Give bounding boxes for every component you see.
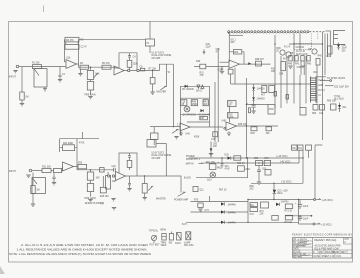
svg-text:R C R: R C R <box>284 47 291 49</box>
svg-text:VIEW: VIEW <box>160 230 167 232</box>
svg-text:10K: 10K <box>271 71 276 73</box>
ground <box>20 104 24 106</box>
resistor R54 <box>319 105 325 116</box>
svg-text:10uF: 10uF <box>303 206 309 208</box>
svg-text:SCALE: SCALE <box>293 250 301 253</box>
note text U2 <box>152 153 172 160</box>
wire stub R17 <box>167 64 171 87</box>
op-amp U3B <box>222 120 248 130</box>
wire <box>220 61 230 63</box>
wire pin fringe <box>230 32 308 34</box>
svg-text:22uF: 22uF <box>206 47 212 49</box>
resistor R33 <box>229 50 244 64</box>
label SG <box>231 40 237 45</box>
resistor R26 <box>100 168 105 172</box>
wire rail +15 out <box>248 198 333 201</box>
text <box>200 69 223 77</box>
svg-text:TYPICAL: TYPICAL <box>149 230 159 233</box>
svg-text:1.ALL RESISTANCE VALUES ARE IN: 1.ALL RESISTANCE VALUES ARE IN OHMS K=10… <box>17 248 147 251</box>
wire <box>229 34 243 36</box>
op-amp U1B <box>114 66 124 75</box>
resistor R52 <box>300 108 306 116</box>
diode D9 <box>252 84 265 97</box>
wire +15 feed <box>209 142 218 158</box>
svg-text:R36: R36 <box>277 48 282 50</box>
resistor R51 <box>269 86 275 93</box>
wire rail -15 <box>251 182 303 184</box>
svg-text:RG: RG <box>298 148 302 150</box>
svg-text:220K: 220K <box>133 64 139 66</box>
wire <box>246 104 268 106</box>
ground <box>112 208 116 210</box>
svg-text:AMP IN: AMP IN <box>186 162 194 165</box>
wire <box>77 64 116 67</box>
svg-text:10 10 10: 10 10 10 <box>296 51 306 53</box>
transistor Q3 <box>286 52 291 57</box>
op-amp U1A <box>66 57 77 69</box>
svg-text:(-15 VDC): (-15 VDC) <box>321 224 332 226</box>
ground <box>26 175 30 177</box>
resistor R10 <box>191 100 197 106</box>
svg-text:DR. A.SMITH: DR. A.SMITH <box>293 238 307 241</box>
svg-text:R64: R64 <box>265 158 270 160</box>
svg-text:U1A: U1A <box>66 57 71 60</box>
diode D22 <box>221 202 236 206</box>
svg-text:PRE GAIN: PRE GAIN <box>85 94 96 97</box>
ground <box>150 92 154 94</box>
jack J1 <box>16 65 21 68</box>
svg-text:R45: R45 <box>314 72 319 74</box>
svg-text:40P: 40P <box>231 42 236 44</box>
svg-text:TO SPKR JACKS: TO SPKR JACKS <box>327 77 346 80</box>
svg-text:10uF: 10uF <box>303 219 309 221</box>
wire <box>301 60 304 75</box>
resistor R74 <box>285 215 293 224</box>
resistor R21 <box>42 166 51 172</box>
svg-text:POWER AMP: POWER AMP <box>174 199 189 202</box>
title text <box>315 244 341 250</box>
diode D10 <box>337 43 340 51</box>
wire bus vertical A <box>179 86 181 135</box>
wire top bus ch2 <box>60 138 100 140</box>
wire out <box>166 176 181 193</box>
wire <box>234 68 236 85</box>
capacitor C1 <box>58 67 65 80</box>
wire bus v2 <box>280 56 282 108</box>
svg-text:Q11: Q11 <box>200 190 205 192</box>
svg-text:R53: R53 <box>312 113 317 115</box>
wire to EQ <box>160 64 174 70</box>
wire bus vertical C <box>214 82 216 142</box>
diode D24 <box>221 221 236 225</box>
wire fb bus <box>79 38 146 40</box>
diode D23 <box>221 210 236 214</box>
wire eq low <box>180 113 209 115</box>
capacitor C22 <box>111 166 116 172</box>
svg-text:R38 4K7: R38 4K7 <box>255 59 265 61</box>
svg-text:4558: 4558 <box>194 137 200 139</box>
svg-text:C50: C50 <box>342 45 347 47</box>
capacitor C62 <box>257 166 261 185</box>
svg-text:JACK: JACK <box>175 242 181 245</box>
svg-text:U4B: U4B <box>222 120 227 122</box>
wire <box>74 167 114 170</box>
svg-text:R45: R45 <box>318 56 323 58</box>
svg-text:FROM SHT 1: FROM SHT 1 <box>186 159 201 161</box>
wire U2B feedback <box>119 153 137 176</box>
svg-text:10K: 10K <box>112 181 117 183</box>
wire rail C <box>186 221 299 223</box>
diode D8 <box>199 109 211 116</box>
label cluster <box>276 51 308 56</box>
node junction <box>248 62 251 65</box>
wire eq top <box>180 85 209 87</box>
svg-text:Q5 SPS8525: Q5 SPS8525 <box>183 115 197 117</box>
label row <box>288 64 312 68</box>
svg-text:(+15 VDC): (+15 VDC) <box>322 200 333 202</box>
legend heading <box>149 230 167 233</box>
svg-text:2K4: 2K4 <box>234 52 239 54</box>
ground <box>143 198 147 200</box>
label <box>327 101 347 110</box>
svg-text:C73: C73 <box>205 210 210 212</box>
wire <box>247 200 249 223</box>
resistor R55 <box>331 104 337 110</box>
svg-text:(-40 VDC): (-40 VDC) <box>280 161 291 163</box>
svg-text:POT BOT: POT BOT <box>150 245 161 247</box>
resistor R30 <box>194 61 229 69</box>
ground <box>88 200 92 202</box>
cells row <box>313 250 353 254</box>
svg-text:2. ALL R.C.S 1/2,A,5 ARE 1/4W: 2. ALL R.C.S 1/2,A,5 ARE 1/4W OR NOTED. … <box>21 244 149 247</box>
svg-text:R24 220K: R24 220K <box>63 143 74 145</box>
svg-text:R40: R40 <box>288 64 293 66</box>
svg-text:64.5: 64.5 <box>182 224 187 226</box>
svg-text:R61 150: R61 150 <box>206 162 215 164</box>
legend trim symbol <box>161 234 168 248</box>
ground <box>127 189 131 191</box>
wire bus vertical D <box>217 48 219 142</box>
svg-text:C15: C15 <box>211 139 216 141</box>
jack tip contact <box>108 175 110 177</box>
capacitor C70 <box>295 200 309 210</box>
node junction <box>90 67 91 68</box>
svg-text:80301: 80301 <box>333 252 340 254</box>
resistor R28 <box>100 176 109 198</box>
svg-text:R31: R31 <box>200 73 205 75</box>
jack J2 <box>29 169 34 172</box>
node junction <box>221 157 303 184</box>
svg-text:4K7: 4K7 <box>261 95 266 97</box>
resistor R73 <box>285 204 293 213</box>
svg-text:R73 1K: R73 1K <box>285 211 293 213</box>
node junction <box>90 169 91 170</box>
label <box>186 156 201 161</box>
resistor R4 <box>80 63 89 69</box>
resistor R53 <box>312 105 318 116</box>
bottom row <box>314 254 342 259</box>
svg-text:1N4742: 1N4742 <box>281 201 290 203</box>
wire feedback ch2 <box>60 139 78 167</box>
jack switch outline ch2 <box>32 178 46 194</box>
resistor R2 <box>20 67 29 104</box>
svg-text:OUT 2: OUT 2 <box>318 90 325 92</box>
resistor R15 <box>151 127 159 145</box>
signature strokes <box>296 240 311 257</box>
pot P2 <box>150 71 155 92</box>
capacitor C33 <box>203 50 205 55</box>
pot P23 <box>142 176 152 197</box>
text label <box>206 44 221 53</box>
ground <box>31 204 35 206</box>
svg-text:REV A.B.: REV A.B. <box>293 256 303 259</box>
svg-text:(+40 VDC): (+40 VDC) <box>277 156 288 158</box>
company row <box>315 238 353 245</box>
wire bus vertical B <box>209 86 211 127</box>
ground <box>227 132 231 136</box>
wire dashed drops <box>311 34 318 44</box>
boxes top right <box>292 145 312 150</box>
diode D25 <box>276 201 289 206</box>
wire <box>299 145 322 200</box>
svg-text:2K2: 2K2 <box>250 189 255 191</box>
arrow wiper <box>161 86 167 90</box>
label cluster 2 <box>271 47 322 76</box>
note text U1 <box>152 53 172 60</box>
svg-text:R56 10K: R56 10K <box>327 101 336 103</box>
svg-text:DATE: DATE <box>293 247 299 250</box>
svg-text:47K: 47K <box>200 75 205 77</box>
svg-text:+V: +V <box>318 95 321 97</box>
arrow out <box>178 192 186 197</box>
svg-text:D20: D20 <box>225 155 230 157</box>
label U4A <box>186 133 200 139</box>
svg-text:R20: R20 <box>251 133 256 135</box>
capacitor C42 <box>249 108 251 113</box>
resistor R29 <box>266 127 272 135</box>
svg-text:OP AMP: OP AMP <box>152 157 161 160</box>
jack switch outline <box>34 69 47 87</box>
wire rail -40 <box>204 162 300 164</box>
label <box>342 45 348 52</box>
op-amp U2B <box>116 172 126 181</box>
resistor R65 <box>265 170 271 176</box>
legend jack symbol <box>175 233 181 246</box>
resistor R43 <box>307 56 310 62</box>
ground <box>179 132 183 136</box>
pot P21 <box>87 170 100 180</box>
svg-text:D21 +15V: D21 +15V <box>278 191 289 193</box>
svg-text:C60: C60 <box>213 144 218 146</box>
svg-text:R5 47K: R5 47K <box>102 63 110 65</box>
svg-text:R70: R70 <box>194 200 199 202</box>
legend lamp symbol <box>184 232 194 247</box>
svg-text:C72: C72 <box>250 214 255 216</box>
connector block B2 <box>147 140 156 148</box>
svg-text:C2 47: C2 47 <box>81 47 88 49</box>
wire <box>285 215 312 217</box>
svg-text:FLIP FLOP: FLIP FLOP <box>296 54 308 56</box>
resistor R46 <box>281 62 286 71</box>
title divider v <box>312 238 314 259</box>
node junction <box>246 104 247 127</box>
wire signal down <box>173 64 175 127</box>
svg-text:4K7: 4K7 <box>283 59 288 61</box>
wire <box>150 126 180 128</box>
svg-text:R1 22K: R1 22K <box>32 63 40 65</box>
svg-text:D5 1N4448: D5 1N4448 <box>182 89 194 91</box>
ground <box>13 71 17 73</box>
svg-text:R74 1K: R74 1K <box>285 222 293 224</box>
title outer <box>293 238 353 259</box>
resistor R25 <box>78 143 87 169</box>
svg-text:GND: GND <box>318 85 323 87</box>
wire rail A <box>191 201 249 203</box>
svg-text:R62: R62 <box>246 169 251 171</box>
svg-text:C32: C32 <box>218 69 223 71</box>
svg-text:R3 47K: R3 47K <box>66 40 74 42</box>
wire out top <box>316 77 346 80</box>
ground <box>52 183 56 185</box>
resistor R44 <box>200 116 208 120</box>
wire -15 out <box>299 200 332 227</box>
wire bus v1 <box>274 35 276 108</box>
svg-text:C22: C22 <box>112 166 117 168</box>
svg-text:C36: C36 <box>279 74 284 76</box>
arrow wiper <box>172 129 178 133</box>
wire feedback loop <box>65 39 79 64</box>
svg-text:INPUT: INPUT <box>9 171 16 173</box>
svg-text:PEAVEY ELECTRONICS CORP MERIDI: PEAVEY ELECTRONICS CORP MERIDIAN MS <box>292 234 352 237</box>
svg-text:R43: R43 <box>307 64 312 66</box>
svg-text:RG: RG <box>292 148 296 150</box>
wire <box>240 63 271 65</box>
ground <box>111 199 115 201</box>
resistor R45 <box>314 59 321 75</box>
jack tip contact <box>128 69 130 71</box>
svg-text:1N4003: 1N4003 <box>257 89 266 91</box>
svg-text:10uF: 10uF <box>342 48 348 50</box>
svg-text:R61: R61 <box>217 167 222 169</box>
wire <box>156 144 166 177</box>
resistor R19 <box>228 113 239 119</box>
connector CN1 striped <box>311 77 317 103</box>
svg-text:R25: R25 <box>78 163 83 165</box>
svg-text:INPUT: INPUT <box>9 77 16 79</box>
svg-text:1M: 1M <box>25 97 28 99</box>
wire rail <box>289 43 322 45</box>
svg-text:25V: 25V <box>342 50 347 52</box>
capacitor C21 <box>52 173 55 182</box>
svg-text:R28 10K: R28 10K <box>100 196 109 198</box>
ground stub <box>78 69 82 76</box>
resistor R62 <box>238 166 251 171</box>
svg-text:1M: 1M <box>36 190 39 192</box>
svg-text:150K: 150K <box>192 104 198 106</box>
svg-text:10K: 10K <box>96 178 101 180</box>
resistor R24 <box>63 143 75 151</box>
svg-text:4700: 4700 <box>269 109 275 111</box>
wire <box>325 34 328 76</box>
connector block B1 <box>146 39 155 46</box>
resistor R41 <box>295 56 298 62</box>
svg-text:MASTER: MASTER <box>156 198 166 201</box>
resistor R6 <box>127 57 138 71</box>
capacitor C71 <box>298 216 309 221</box>
resistor R70 <box>198 203 203 211</box>
capacitor C5 <box>140 66 145 71</box>
resistor R38 <box>255 59 265 66</box>
transistor Q4 <box>312 49 317 54</box>
svg-text:47uF: 47uF <box>225 169 231 171</box>
wire rail +40 <box>189 157 304 159</box>
diode D21 <box>273 183 289 199</box>
diode D20 <box>225 155 231 160</box>
svg-text:VIEW: VIEW <box>161 245 168 247</box>
wire out 2 <box>320 80 332 82</box>
wire <box>325 31 330 57</box>
svg-text:T3 5A: T3 5A <box>334 95 341 98</box>
capacitor C23 <box>128 153 131 160</box>
wire <box>302 158 304 183</box>
svg-text:U2-B TL072: U2-B TL072 <box>152 153 165 155</box>
svg-text:R60 1K: R60 1K <box>237 163 245 165</box>
pot P22 <box>106 172 117 189</box>
resistor R44 <box>327 46 333 58</box>
node junction <box>228 32 230 34</box>
resistor R1 <box>32 63 42 69</box>
svg-text:R30: R30 <box>196 61 201 63</box>
pot P21 lower <box>87 180 93 196</box>
svg-text:C52 10uF 50V: C52 10uF 50V <box>334 87 349 89</box>
wire <box>229 107 231 123</box>
wire eq mid <box>180 97 209 99</box>
svg-text:DATE: DATE <box>314 255 320 258</box>
IC U6 dashed <box>294 44 312 50</box>
node junction <box>247 157 248 158</box>
svg-text:R21 22K: R21 22K <box>42 166 51 168</box>
resistor R20 <box>251 127 258 135</box>
diode D11 <box>338 103 341 113</box>
svg-text:SHEET 1 OF: SHEET 1 OF <box>322 256 336 258</box>
svg-text:22K: 22K <box>260 214 265 216</box>
svg-text:1N4448: 1N4448 <box>228 204 237 206</box>
resistor R23 <box>31 173 40 204</box>
wire dashed tail <box>310 31 327 33</box>
resistor R60 <box>234 156 241 160</box>
wire rail B <box>191 211 249 213</box>
op-amp U4A <box>177 123 190 131</box>
svg-text:8-81: 8-81 <box>337 256 342 258</box>
transistor Q5 <box>183 106 197 116</box>
svg-text:D6 D7: D6 D7 <box>196 90 203 92</box>
resistor R9 <box>180 100 187 106</box>
svg-text:C44: C44 <box>319 113 324 115</box>
ground <box>88 97 92 99</box>
left rows <box>293 241 313 256</box>
wire <box>22 66 66 68</box>
label extras <box>206 158 269 182</box>
resistor R48 <box>286 95 289 100</box>
resistor R72 <box>261 202 269 208</box>
svg-text:10K: 10K <box>200 118 205 120</box>
wire power feed <box>228 34 230 63</box>
jack ring contact <box>112 175 114 177</box>
wire <box>247 158 249 178</box>
ground <box>288 66 292 68</box>
wire spkr <box>325 86 349 89</box>
wire <box>149 46 151 53</box>
